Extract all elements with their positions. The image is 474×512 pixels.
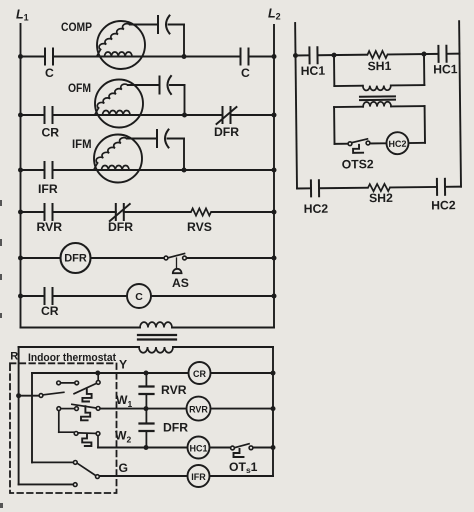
- svg-text:OTs1: OTs1: [229, 460, 258, 475]
- svg-text:CR: CR: [193, 369, 206, 379]
- svg-text:IFR: IFR: [38, 182, 58, 196]
- svg-text:DFR: DFR: [214, 125, 239, 139]
- svg-text:HC1: HC1: [189, 444, 207, 454]
- svg-text:C: C: [45, 66, 54, 80]
- svg-text:HC1: HC1: [433, 62, 458, 76]
- svg-text:Y: Y: [119, 358, 127, 372]
- svg-text:AS: AS: [172, 276, 189, 290]
- svg-text:C: C: [241, 66, 250, 80]
- svg-text:CR: CR: [42, 126, 60, 140]
- svg-text:SH2: SH2: [369, 191, 393, 205]
- svg-text:DFR: DFR: [108, 220, 133, 234]
- svg-text:OTS2: OTS2: [342, 157, 374, 171]
- svg-text:G: G: [119, 461, 128, 475]
- svg-text:SH1: SH1: [368, 59, 392, 73]
- svg-text:HC1: HC1: [301, 64, 326, 78]
- svg-text:HC2: HC2: [388, 139, 406, 149]
- svg-text:CR: CR: [41, 304, 59, 318]
- svg-text:C: C: [135, 291, 143, 303]
- svg-text:RVR: RVR: [161, 383, 187, 397]
- svg-text:HC2: HC2: [431, 198, 456, 212]
- svg-text:RVS: RVS: [187, 220, 212, 234]
- svg-text:DFR: DFR: [163, 421, 188, 435]
- svg-text:COMP: COMP: [61, 20, 92, 34]
- svg-text:IFM: IFM: [72, 137, 92, 151]
- svg-text:IFR: IFR: [191, 472, 206, 482]
- svg-text:RVR: RVR: [37, 220, 63, 234]
- svg-text:Indoor thermostat: Indoor thermostat: [28, 352, 116, 364]
- svg-text:OFM: OFM: [68, 81, 91, 95]
- svg-text:DFR: DFR: [64, 253, 87, 265]
- svg-text:R: R: [10, 351, 18, 363]
- svg-text:HC2: HC2: [304, 202, 329, 216]
- svg-text:RVR: RVR: [189, 405, 208, 415]
